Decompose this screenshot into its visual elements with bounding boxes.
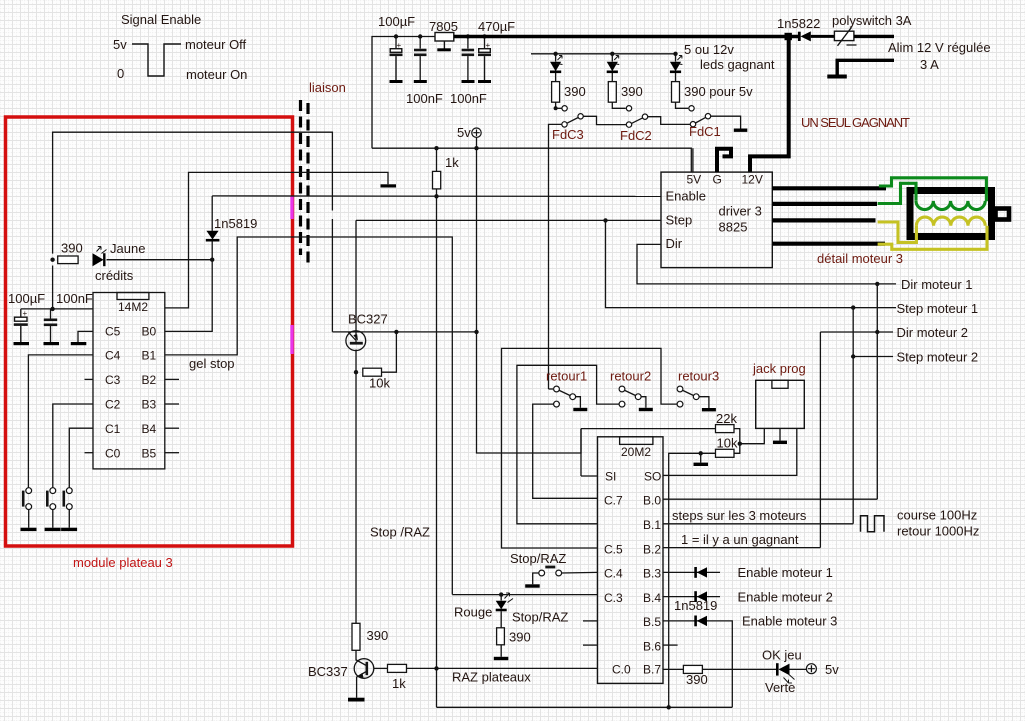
node junction cap3	[466, 34, 470, 38]
svg-text:retour1: retour1	[546, 369, 587, 384]
wire led3 anode stub	[675, 54, 677, 62]
ground fdc1	[734, 129, 748, 132]
wire 7805 ground stem	[443, 41, 445, 49]
wire bc327 stem from step row	[355, 220, 357, 343]
wire thick G pin curl	[717, 149, 731, 172]
wire jack middle pin to ground	[779, 428, 781, 440]
wire jack left pin to divider node	[740, 428, 764, 443]
resistor R bc337 390	[352, 623, 360, 650]
node rouge tap	[499, 592, 503, 596]
liaison dashed cable line left	[299, 100, 302, 255]
svg-text:C.3: C.3	[604, 591, 623, 605]
wire caps rail	[21, 266, 93, 319]
svg-text:12V: 12V	[742, 173, 763, 187]
wire B.4 row	[663, 596, 720, 598]
resistor R bc337 base 1k	[388, 664, 407, 672]
wire bc337 emitter ground	[356, 677, 358, 698]
switch retour2 blade circle	[635, 394, 641, 400]
wire B.5 row to bottom bus	[663, 621, 732, 707]
svg-text:390: 390	[686, 672, 708, 687]
svg-text:C0: C0	[105, 446, 121, 460]
node junction cap2	[418, 34, 422, 38]
svg-text:crédits: crédits	[95, 268, 134, 283]
resistor R credits 390	[58, 256, 78, 264]
switch retour1 lower circle	[554, 401, 560, 407]
svg-text:SO: SO	[644, 470, 661, 484]
polyswitch F1 body	[834, 31, 854, 40]
wire 5v to SI run	[477, 331, 582, 453]
svg-text:100µF: 100µF	[8, 291, 45, 306]
switch retour2 blade line	[625, 390, 636, 395]
wire bc327 node row	[332, 331, 476, 333]
wire step moteur 2 stub	[853, 356, 893, 358]
svg-text:20M2: 20M2	[621, 445, 651, 459]
svg-text:B.2: B.2	[643, 542, 661, 556]
svg-text:Verte: Verte	[765, 680, 795, 695]
node divider	[738, 442, 742, 446]
wire Dir pin to dir moteur 1 row	[637, 244, 896, 284]
svg-text:C1: C1	[105, 422, 121, 436]
IC U5 20M2 box	[598, 437, 664, 684]
inductor yellow coil bumps	[916, 217, 985, 226]
wire retour3 lower to C.5 rail	[502, 348, 678, 548]
svg-text:B2: B2	[142, 373, 157, 387]
svg-text:B5: B5	[142, 446, 157, 460]
wire fdc3 left lead down	[549, 124, 562, 389]
IC U4 14M2 box	[93, 293, 165, 469]
svg-text:Rouge: Rouge	[454, 605, 492, 620]
wire fdc2 to fdc1	[648, 117, 691, 125]
wire C5 to ground	[78, 331, 93, 342]
wire 10k ground stem	[700, 453, 702, 462]
svg-text:100nF: 100nF	[56, 291, 93, 306]
wire B.0 row to dir bus	[663, 498, 877, 500]
wire module 5v feed top run	[53, 132, 333, 332]
svg-text:390: 390	[564, 84, 586, 99]
wire B5 stub	[165, 452, 179, 454]
svg-text:détail moteur 3: détail moteur 3	[817, 251, 903, 266]
svg-text:3 A: 3 A	[920, 57, 939, 72]
switch retour3 blade line	[683, 390, 694, 395]
wire B3 stub	[165, 403, 179, 405]
node enable 1k junction	[434, 194, 438, 198]
svg-text:1n5819: 1n5819	[214, 216, 257, 231]
signal-enable waveform label group	[113, 12, 247, 82]
wire bc327 emitter down	[355, 350, 357, 624]
svg-text:+: +	[23, 309, 28, 318]
node 5v drop top	[474, 146, 478, 150]
svg-text:C.7: C.7	[604, 494, 623, 508]
polyswitch diagonal strike	[838, 27, 857, 46]
wire raz plateaux row	[407, 667, 598, 669]
switch FdC1 pivot circle	[690, 122, 695, 127]
svg-text:module plateau 3: module plateau 3	[73, 555, 173, 570]
wire C0 stub	[85, 452, 94, 454]
LED Jaune symbol	[93, 247, 107, 267]
node step1 bus top	[851, 305, 855, 309]
svg-text:B1: B1	[142, 349, 157, 363]
node 1k top	[434, 146, 438, 150]
svg-text:Alim 12 V régulée: Alim 12 V régulée	[888, 40, 991, 55]
wire 10k left run to bottom bus	[669, 453, 716, 707]
resistor R led1 390	[552, 73, 560, 108]
svg-text:Jaune: Jaune	[110, 241, 145, 256]
svg-text:B.3: B.3	[643, 567, 661, 581]
node led2	[610, 52, 614, 56]
svg-text:C.5: C.5	[604, 542, 623, 556]
switch FdC1 upper contact circle	[689, 106, 694, 111]
wire B2 stub	[165, 378, 179, 380]
motor M3 shaft	[996, 209, 1010, 220]
switch FdC2 pivot circle	[626, 122, 631, 127]
svg-text:Stop/RAZ: Stop/RAZ	[510, 551, 566, 566]
node junction cap4	[482, 34, 486, 38]
pushbutton S1 plateau	[23, 488, 31, 528]
svg-text:FdC1: FdC1	[689, 124, 721, 139]
svg-text:Dir moteur 2: Dir moteur 2	[897, 325, 969, 340]
wire SI pin stub	[581, 475, 598, 477]
wire credits row to diode junction	[107, 259, 213, 261]
svg-text:470µF: 470µF	[478, 19, 515, 34]
magenta segment lower on red box right edge	[290, 325, 293, 354]
LED gagnant 2 symbol	[607, 56, 620, 72]
node bc327 base row left	[394, 330, 398, 334]
waveform course retour symbol	[861, 516, 885, 532]
svg-text:1n5819: 1n5819	[674, 598, 717, 613]
svg-text:390: 390	[367, 628, 389, 643]
svg-text:RAZ plateaux: RAZ plateaux	[452, 670, 531, 685]
svg-text:7805: 7805	[429, 19, 458, 34]
wire verte to 5v supply	[790, 668, 807, 670]
wire led2 anode stub	[611, 54, 613, 62]
transistor Q1 BC327	[346, 331, 366, 351]
diode D2 1n5819 module	[206, 231, 220, 241]
svg-text:driver 3: driver 3	[719, 204, 762, 219]
wire thick motor lead 3	[772, 218, 875, 222]
wire B0 to diode bus	[165, 196, 212, 332]
LED Rouge symbol	[496, 593, 513, 628]
transistor Q2 BC337	[354, 659, 374, 679]
node led1	[553, 52, 557, 56]
svg-text:B.1: B.1	[643, 518, 661, 532]
switch FdC1 blade line	[696, 117, 706, 123]
diode D1 1n5822 symbol	[799, 31, 834, 41]
pushbutton S3 plateau	[64, 488, 72, 528]
wire fdc3 to fdc2	[583, 116, 626, 124]
diode D5 enable moteur 3	[696, 616, 707, 627]
ground bc337	[348, 698, 365, 702]
svg-text:Stop /RAZ: Stop /RAZ	[370, 525, 430, 540]
wire B4 stub	[165, 427, 179, 429]
wire 22k right to node	[734, 429, 740, 444]
wire C3 stub	[85, 378, 94, 380]
resistor R8 390 out	[683, 665, 702, 673]
wire thick motor lead 2	[772, 202, 877, 206]
LED gagnant 1 symbol	[550, 56, 563, 72]
wire rouge resistor to ground	[500, 645, 502, 657]
wire B.6 stub	[663, 644, 678, 646]
wire cap1 stub	[395, 37, 397, 49]
svg-text:1k: 1k	[392, 676, 406, 691]
wire thick 12V rail from 7805 to diode	[454, 35, 799, 38]
node step2 tap	[851, 354, 855, 358]
wire C4 to button1	[28, 355, 93, 488]
node fdc3 top terminal	[554, 106, 558, 110]
svg-text:steps sur les 3 moteurs: steps sur les 3 moteurs	[672, 508, 807, 523]
resistor R6 22k	[716, 425, 735, 433]
svg-text:1k: 1k	[445, 155, 459, 170]
wire C1 to button3	[69, 428, 93, 487]
switch retour2 lower circle	[619, 401, 625, 407]
resistor R led3 390	[672, 73, 689, 108]
inductor green coil bumps	[916, 201, 985, 210]
motor winding yellow phase inner	[878, 222, 917, 242]
wire B.6 left stub	[583, 644, 598, 646]
motor winding green phase outer	[879, 178, 987, 202]
wire retour3 blade to ground	[699, 397, 709, 408]
svg-text:B.6: B.6	[643, 639, 661, 653]
svg-text:jack prog: jack prog	[752, 361, 806, 376]
ground module C5	[71, 342, 87, 345]
ground stopraz	[525, 584, 540, 587]
switch retour1 blade circle	[570, 394, 576, 400]
liaison dashed cable line right	[306, 103, 309, 267]
svg-text:Dir moteur 1: Dir moteur 1	[901, 277, 973, 292]
wire 5V pin stub	[692, 148, 694, 172]
resistor R rouge 390	[497, 628, 505, 645]
svg-text:OK jeu: OK jeu	[762, 648, 802, 663]
svg-text:390: 390	[509, 630, 531, 645]
ground cap1	[390, 80, 403, 83]
svg-text:C4: C4	[105, 349, 121, 363]
wire thick alim return	[837, 60, 894, 74]
ground module cap2	[44, 342, 60, 345]
wire cap3 stub	[467, 37, 469, 49]
svg-text:BC337: BC337	[308, 664, 348, 679]
svg-text:G: G	[713, 173, 722, 187]
switch FdC3 blade and throw circle	[578, 114, 583, 119]
wire thick 12V bus down to driver	[750, 40, 789, 172]
top supply section	[372, 37, 485, 149]
svg-text:22k: 22k	[716, 411, 737, 426]
wire bc337 collector stub	[355, 650, 357, 660]
wire B.7 row to verte led	[702, 668, 777, 670]
wire enable waveform trace	[132, 44, 181, 76]
ground rouge	[494, 657, 509, 660]
switch retour3 upper circle	[677, 386, 683, 392]
LED gagnant 3 symbol	[670, 56, 683, 72]
wire B.1 row to step bus	[663, 523, 853, 525]
svg-text:5 ou 12v: 5 ou 12v	[684, 42, 734, 57]
wire B.5 left stub	[583, 620, 598, 622]
svg-text:+: +	[397, 41, 402, 50]
svg-text:1n5822: 1n5822	[777, 16, 820, 31]
ground cap4	[478, 80, 491, 83]
switch retour2 upper circle	[619, 386, 625, 392]
motor winding yellow phase outer	[878, 226, 987, 250]
wire thick motor lead 4	[772, 242, 885, 246]
svg-text:UN SEUL GAGNANT: UN SEUL GAGNANT	[801, 115, 910, 130]
switch FdC3 pivot circle	[562, 122, 567, 127]
capacitor C3 100nF plates	[462, 50, 475, 80]
magenta segment upper on red box right edge	[290, 196, 293, 220]
svg-text:Enable: Enable	[666, 189, 706, 204]
diode D3 enable moteur 1	[696, 567, 707, 578]
capacitor 100uF module	[14, 317, 28, 342]
switch FdC2 throw circle	[642, 114, 647, 119]
svg-text:retour 1000Hz: retour 1000Hz	[897, 524, 979, 539]
switch FdC2 blade line	[632, 118, 643, 124]
ground retour2	[639, 408, 653, 411]
svg-text:C2: C2	[105, 398, 121, 412]
wire dir moteur 2 row	[820, 331, 893, 333]
wire gagnant bus vertical B.2	[819, 332, 821, 548]
svg-text:5v: 5v	[825, 662, 839, 677]
wire cap4 stub	[484, 37, 486, 49]
wire 22k rail down to SI	[580, 429, 582, 476]
resistor R4 1k	[433, 171, 441, 189]
node credits diode junction	[210, 258, 214, 262]
wire C2 to button2	[53, 404, 93, 488]
svg-text:retour3: retour3	[678, 369, 719, 384]
node bc327 5v junction	[474, 330, 478, 334]
svg-text:390: 390	[61, 241, 83, 256]
LED Verte symbol	[777, 663, 794, 683]
wire thick alim positive out	[854, 35, 894, 38]
capacitor C1 100uF plates	[390, 49, 403, 81]
supply symbol 5v out circle	[806, 664, 816, 674]
wire bc337 base row	[374, 667, 388, 669]
svg-text:390 pour 5v: 390 pour 5v	[684, 84, 753, 99]
svg-text:Step: Step	[666, 213, 693, 228]
jack prog connector body	[756, 380, 805, 428]
wire serial stub pin to ground across liaison	[165, 172, 388, 308]
ground retour3	[702, 408, 716, 411]
svg-text:Step moteur 1: Step moteur 1	[897, 301, 979, 316]
wire B1 gel stop run	[165, 237, 453, 595]
svg-text:390: 390	[621, 84, 643, 99]
motor winding green phase inner	[878, 183, 916, 203]
resistor R led2 390	[608, 73, 625, 108]
svg-text:100nF: 100nF	[450, 91, 487, 106]
svg-text:C5: C5	[105, 325, 121, 339]
svg-text:C3: C3	[105, 373, 121, 387]
wire stopraz left to ground	[533, 573, 539, 584]
svg-text:liaison: liaison	[309, 80, 346, 95]
svg-text:SI: SI	[605, 470, 616, 484]
wire thick motor lead 1	[772, 186, 886, 190]
wire thin input rail to 7805	[372, 37, 435, 149]
node 10k ground tap	[699, 451, 703, 455]
svg-text:B.0: B.0	[643, 494, 661, 508]
wire led1 anode stub	[555, 54, 557, 62]
wire fdc3 top stub	[556, 107, 562, 109]
diode D4 enable moteur 2	[696, 591, 707, 602]
svg-text:polyswitch 3A: polyswitch 3A	[832, 13, 912, 28]
svg-text:FdC3: FdC3	[552, 127, 584, 142]
node step row tap	[603, 218, 607, 222]
wire step moteur 1 row	[606, 220, 897, 307]
node credits junction left	[50, 258, 54, 262]
svg-text:course 100Hz: course 100Hz	[897, 508, 977, 523]
switch FdC3 blade line	[567, 118, 578, 124]
wire step row	[356, 219, 661, 221]
resistor R5 10k	[363, 368, 382, 376]
wire raz bus vertical	[436, 196, 438, 707]
node bottom bus 10k run	[667, 705, 671, 709]
wire B.2 row to gagnant bus	[663, 547, 820, 549]
wire retour1 blade to ground	[576, 397, 581, 408]
wire led top rail	[531, 53, 676, 55]
ground stub liaison	[381, 184, 397, 187]
svg-text:0: 0	[117, 66, 124, 81]
ground button3	[61, 528, 77, 531]
ground cap3	[462, 80, 475, 83]
wire 1k top stub	[436, 148, 438, 171]
svg-text:B3: B3	[142, 398, 157, 412]
resistor R7 10k	[716, 449, 735, 457]
switch retour1 upper circle	[554, 386, 560, 392]
wire jack right pin to SO	[663, 428, 797, 475]
ground 10k	[694, 463, 709, 466]
svg-text:1 = il y a un gagnant: 1 = il y a un gagnant	[681, 532, 799, 547]
wire B.3 row	[663, 571, 720, 573]
svg-text:Step moteur 2: Step moteur 2	[897, 350, 979, 365]
wire dir bus vertical B.0	[876, 284, 878, 499]
node junction cap1	[394, 34, 398, 38]
svg-text:Enable moteur 3: Enable moteur 3	[742, 614, 837, 629]
wire 10k right leg	[382, 332, 397, 372]
svg-text:Signal Enable: Signal Enable	[121, 12, 201, 27]
jack prog notch	[772, 380, 788, 388]
wire enable row from diode bus to driver	[212, 195, 661, 198]
wire retour2 lower to left pin rail	[517, 365, 619, 524]
svg-text:leds gagnant: leds gagnant	[700, 57, 775, 72]
svg-text:gel stop: gel stop	[189, 356, 235, 371]
svg-text:C.4: C.4	[604, 567, 623, 581]
svg-text:8825: 8825	[719, 220, 748, 235]
wire cap2 stub	[419, 37, 421, 49]
wire fdc chain to retour1 upper contact	[549, 388, 554, 390]
switch retour1 blade line	[559, 390, 570, 395]
IC 20M2 notch	[620, 437, 653, 445]
pushbutton Stop RAZ	[539, 567, 562, 576]
svg-text:+: +	[486, 41, 491, 50]
IC 14M2 notch	[117, 293, 149, 300]
switch FdC3 upper contact circle	[562, 106, 567, 111]
capacitor 100nF module	[44, 320, 57, 342]
svg-text:Dir: Dir	[666, 236, 683, 251]
wire fdc1 to ground	[711, 116, 741, 128]
svg-text:moteur On: moteur On	[186, 67, 247, 82]
ground retour1	[573, 408, 587, 411]
node 10k left	[354, 370, 358, 374]
switch FdC1 throw circle	[705, 114, 710, 119]
pushbutton S2 plateau	[47, 488, 55, 528]
wire retour1 lower to C.7	[533, 404, 598, 498]
wire retour2 blade to ground	[641, 397, 646, 408]
svg-text:Enable moteur 1: Enable moteur 1	[738, 565, 833, 580]
svg-text:10k: 10k	[369, 376, 390, 391]
wire B.7 row left	[663, 668, 683, 670]
svg-text:B4: B4	[142, 422, 157, 436]
switch FdC2 upper contact circle	[626, 106, 631, 111]
svg-text:retour2: retour2	[610, 369, 651, 384]
supply symbol 5v circle	[472, 128, 481, 137]
wire stopraz to C.4	[562, 571, 598, 574]
wire step bus vertical B.1	[852, 308, 854, 524]
node caps junction	[50, 307, 54, 311]
